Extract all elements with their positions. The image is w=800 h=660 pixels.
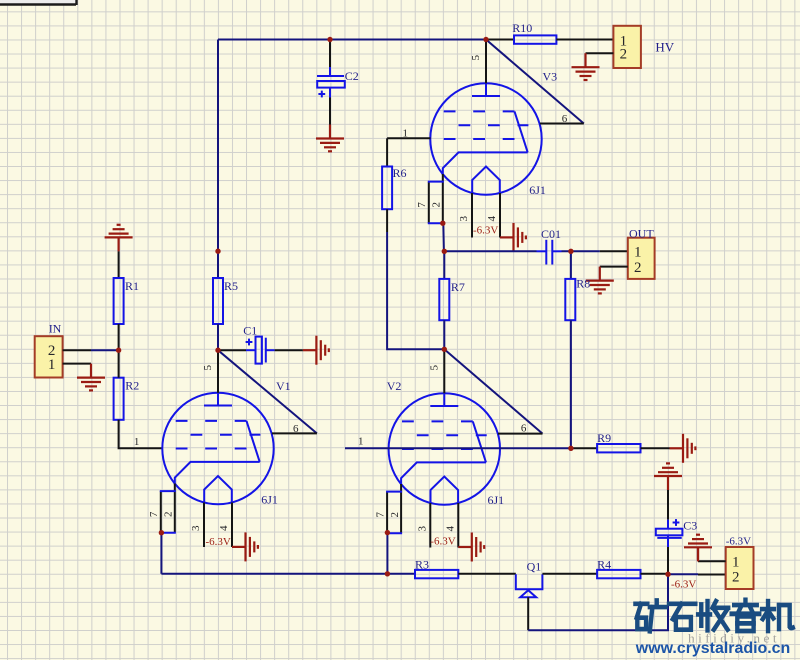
- connector IN: [35, 322, 63, 378]
- wire C01 to OUT node: [562, 250, 600, 252]
- svg-text:5: 5: [470, 54, 482, 60]
- wire V3 plate diagonal: [486, 40, 584, 124]
- svg-text:4: 4: [486, 216, 498, 222]
- resistor R6: [382, 166, 406, 209]
- svg-text:1: 1: [358, 435, 364, 447]
- ground above R1: [105, 225, 133, 252]
- svg-text:5: 5: [202, 364, 214, 370]
- svg-text:6J1: 6J1: [529, 183, 546, 197]
- junction dot OUT node: [568, 249, 573, 254]
- wire -6.3V node to connector pin2: [668, 573, 726, 575]
- wire R10 to HV pin1: [556, 39, 613, 41]
- wire C3 to -6.3V node: [667, 547, 669, 574]
- capacitor C01: [537, 227, 562, 265]
- junction dot input node: [116, 348, 121, 353]
- svg-text:2: 2: [620, 47, 628, 63]
- wire OUT pin2 to ground: [600, 266, 628, 268]
- V2 heater -6.3V label: [430, 536, 455, 548]
- svg-text:5: 5: [428, 365, 440, 371]
- triode V2 envelope: [387, 379, 504, 507]
- junction dot on left drop: [215, 249, 220, 254]
- net label -6.3V at node: [671, 579, 696, 591]
- junction dot -6.3V node: [665, 572, 670, 577]
- triode V3 envelope: [430, 70, 557, 198]
- wire V2 plate diagonal: [444, 349, 542, 433]
- svg-text:R7: R7: [451, 280, 465, 294]
- junction dot bottom bus: [385, 571, 390, 576]
- wire Q1 to R4: [542, 573, 597, 575]
- svg-text:7: 7: [375, 512, 387, 518]
- svg-text:C3: C3: [683, 518, 697, 532]
- svg-text:V2: V2: [387, 379, 402, 393]
- svg-text:R9: R9: [597, 431, 611, 445]
- triode V1 envelope: [162, 379, 290, 507]
- wire R1 to input node: [118, 324, 120, 350]
- wire V3 cathode to coupling node: [442, 223, 445, 251]
- svg-text:R10: R10: [512, 21, 532, 35]
- junction dot V3 cathode: [440, 221, 445, 226]
- wire R5 bottom to node: [217, 324, 219, 350]
- junction dot V2 cathode: [385, 530, 390, 535]
- svg-text:1: 1: [48, 357, 56, 373]
- svg-text:R5: R5: [224, 279, 238, 293]
- junction dot coupling node: [442, 249, 447, 254]
- svg-text:4: 4: [444, 526, 456, 532]
- resistor R8: [565, 277, 590, 321]
- wire -6.3V node down and around: [528, 574, 668, 630]
- V2 pin6 lead: [498, 423, 543, 435]
- capacitor C1: [218, 324, 303, 364]
- wire OUT node down to R8: [570, 251, 572, 279]
- wire V1 plate diagonal: [218, 350, 317, 433]
- svg-text:OUT: OUT: [629, 226, 654, 240]
- resistor R4: [597, 558, 640, 579]
- svg-text:-6.3V: -6.3V: [430, 536, 455, 548]
- V3 pin6 lead: [540, 113, 584, 125]
- V1 heater power bars: [232, 532, 258, 561]
- V2 pin5 lead: [428, 349, 444, 393]
- svg-text:www.crystalradio.cn: www.crystalradio.cn: [635, 640, 790, 657]
- svg-text:1: 1: [732, 555, 740, 571]
- V1 pin5 lead: [202, 350, 218, 393]
- wire Q1 gate drop: [527, 597, 529, 630]
- svg-text:2: 2: [431, 202, 443, 208]
- ground at -6.3V pin1: [684, 535, 712, 562]
- V3 heater power bars: [500, 223, 526, 252]
- svg-text:Q1: Q1: [527, 559, 542, 573]
- V3 heater -6.3V label: [473, 225, 498, 237]
- svg-text:2: 2: [389, 512, 401, 518]
- wire coupling node to C01: [444, 250, 536, 252]
- V1 heater -6.3V label: [206, 536, 231, 548]
- junction dot V1 plate node: [215, 348, 220, 353]
- svg-text:2: 2: [163, 512, 175, 518]
- svg-text:-6.3V: -6.3V: [206, 536, 231, 548]
- junction dot V2 plate node: [442, 347, 447, 352]
- junction dot V3 plate node: [483, 37, 488, 42]
- svg-text:R2: R2: [125, 379, 139, 393]
- svg-text:C01: C01: [541, 227, 561, 241]
- wire V1 cathode to bottom bus: [160, 533, 162, 574]
- V1 pin6 lead: [272, 423, 317, 435]
- resistor R1: [114, 278, 139, 324]
- ground at OUT pin2: [586, 267, 614, 294]
- watermark logo kuangshi shouyinji: [635, 600, 792, 632]
- watermark hifidiy.net: [688, 632, 780, 646]
- wire R3 to Q1: [458, 573, 516, 575]
- resistor R9: [597, 431, 640, 453]
- wire V3 pin1 down to R6: [386, 138, 388, 166]
- wire HV bus top: [218, 39, 486, 41]
- wire R7 down to V2 plate node: [443, 320, 445, 349]
- svg-text:R8: R8: [576, 277, 590, 291]
- svg-text:1: 1: [403, 127, 409, 139]
- resistor R5: [213, 278, 238, 324]
- ground right of C1: [303, 336, 329, 365]
- svg-text:6: 6: [562, 113, 568, 125]
- junction dot V1 cathode: [159, 530, 164, 535]
- svg-text:4: 4: [218, 525, 230, 531]
- wire OUT node pin1 stub: [600, 250, 628, 252]
- ground below C2: [316, 125, 344, 152]
- ground right of R9: [670, 434, 696, 463]
- wire R9 to ground bars: [641, 447, 670, 449]
- wire bottom bus: [161, 573, 415, 575]
- wire ground to C3: [667, 490, 669, 520]
- connector OUT: [628, 226, 655, 279]
- ground above C3: [654, 463, 682, 490]
- resistor R3: [415, 558, 458, 579]
- wire V3 node to R10: [486, 39, 514, 41]
- window scrollbar fragment top-left: [0, 0, 77, 5]
- V2 heater power bars: [458, 533, 484, 562]
- svg-text:6J1: 6J1: [261, 493, 278, 507]
- V3 pin1 lead: [387, 127, 430, 139]
- svg-text:2: 2: [634, 260, 642, 276]
- connector -6.3V: [726, 536, 754, 589]
- svg-text:7: 7: [416, 202, 428, 208]
- svg-text:7: 7: [148, 511, 160, 517]
- svg-text:3: 3: [458, 216, 470, 222]
- svg-text:V3: V3: [543, 70, 558, 84]
- svg-text:-6.3V: -6.3V: [473, 225, 498, 237]
- svg-text:V1: V1: [276, 379, 291, 393]
- wire input node to R2: [118, 350, 120, 378]
- wire R4 to -6.3V node: [641, 573, 669, 575]
- resistor R7: [439, 279, 465, 320]
- svg-text:3: 3: [190, 525, 202, 531]
- ground at IN pin1: [77, 364, 105, 391]
- svg-text:C1: C1: [243, 324, 257, 338]
- svg-text:HV: HV: [655, 40, 674, 55]
- junction dot feedback node: [568, 446, 573, 451]
- V3 cathode pins 2 and 7: [416, 174, 500, 238]
- capacitor C3: [656, 518, 697, 547]
- wire HV pin2 to ground: [586, 52, 614, 54]
- svg-text:1: 1: [634, 245, 642, 261]
- svg-text:-6.3V: -6.3V: [671, 579, 696, 591]
- wire V2 grid line: [345, 435, 571, 448]
- svg-text:6: 6: [521, 423, 527, 435]
- svg-text:6: 6: [293, 423, 299, 435]
- ground at HV pin2: [572, 53, 600, 80]
- svg-text:1: 1: [134, 436, 140, 448]
- svg-text:R3: R3: [415, 558, 429, 572]
- connector HV: [613, 26, 674, 68]
- V1 cathode pins 2 and 7: [148, 484, 232, 548]
- wire R6 to V2 plate node: [387, 209, 444, 349]
- wire -6.3V pin1 to ground: [698, 547, 726, 561]
- svg-text:3: 3: [416, 526, 428, 532]
- svg-text:R1: R1: [125, 279, 139, 293]
- resistor R10: [512, 21, 556, 44]
- wire IN pin1 to ground: [63, 363, 91, 365]
- wire feedback node to R9: [571, 447, 597, 449]
- svg-text:R6: R6: [393, 166, 407, 180]
- svg-text:6J1: 6J1: [488, 493, 505, 507]
- junction dot C2 tap: [327, 37, 332, 42]
- svg-text:IN: IN: [49, 322, 62, 336]
- wire V2 cathode to bottom bus: [386, 533, 388, 574]
- resistor R2: [114, 378, 140, 420]
- capacitor C2: [317, 40, 359, 125]
- wire left drop from HV bus to R5: [217, 40, 219, 279]
- wire R2 to V1 grid: [119, 420, 163, 449]
- svg-text:R4: R4: [597, 558, 611, 572]
- wire IN pin2 to input node: [63, 349, 119, 351]
- wire coupling node down to R7: [443, 251, 445, 279]
- watermark www.crystalradio.cn: [635, 640, 790, 657]
- wire ground to R1: [118, 251, 120, 278]
- V2 cathode pins 2 and 7: [375, 484, 459, 548]
- wire R8 down to feedback node: [570, 320, 572, 448]
- svg-text:-6.3V: -6.3V: [726, 536, 751, 548]
- svg-text:2: 2: [732, 569, 740, 585]
- V3 pin5 lead: [470, 40, 486, 84]
- transistor Q1: [515, 559, 544, 597]
- svg-text:C2: C2: [345, 69, 359, 83]
